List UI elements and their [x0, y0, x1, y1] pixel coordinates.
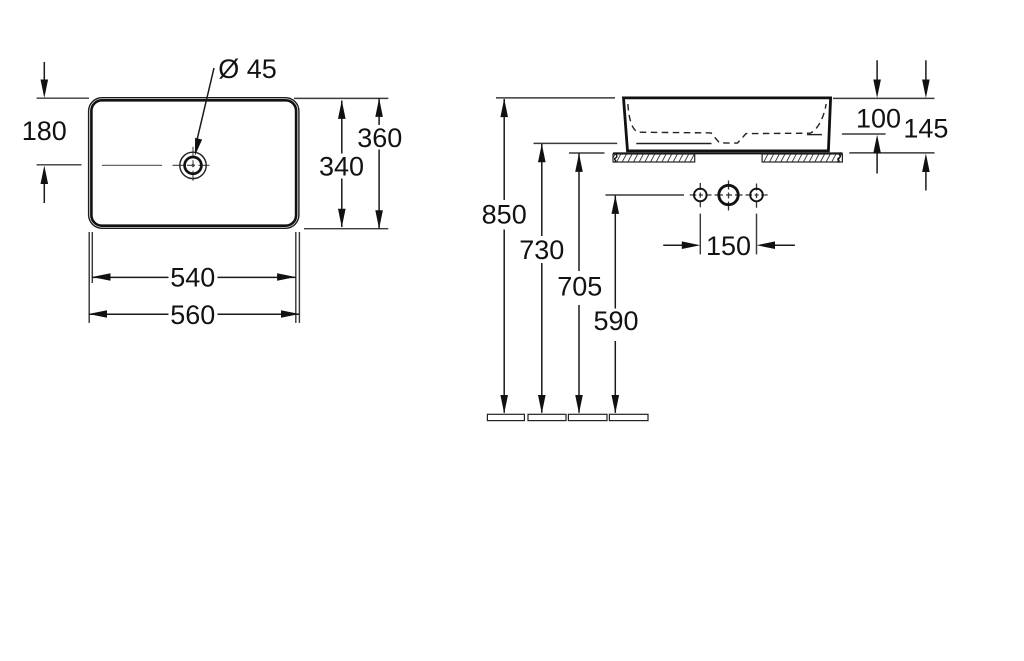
drain hole inner circle [185, 157, 202, 174]
dim 705 line [578, 153, 580, 271]
dim 100 bottom arrow [876, 146, 878, 174]
ext line basin top right [833, 97, 935, 99]
ext lines below basin right [295, 232, 297, 323]
dim 145 top arrow [925, 60, 927, 86]
floor tile 2 [528, 414, 566, 420]
svg-text:180: 180 [22, 116, 67, 146]
tap hole left crosshair [690, 194, 712, 196]
svg-text:100: 100 [856, 103, 901, 133]
svg-text:590: 590 [593, 306, 638, 336]
dim 150 left arrow [663, 244, 688, 246]
countertop top line [613, 152, 843, 154]
svg-text:730: 730 [519, 235, 564, 265]
svg-text:145: 145 [903, 114, 948, 144]
countertop break mark right [838, 153, 841, 163]
countertop break mark left [615, 153, 618, 163]
centerline horizontal [102, 164, 162, 166]
dim 850 line [503, 99, 505, 200]
line from 590 to tap holes [606, 194, 685, 196]
leader line O45 [196, 68, 214, 145]
svg-text:850: 850 [482, 199, 527, 229]
svg-text:705: 705 [557, 271, 602, 301]
crosshair horizontal [173, 164, 213, 166]
floor tile 3 [568, 414, 607, 420]
svg-text:540: 540 [170, 262, 215, 292]
svg-text:340: 340 [319, 152, 364, 182]
dim 590 line [614, 195, 616, 308]
ext line top edge left [37, 97, 89, 99]
dim 180 top arrow [43, 62, 45, 86]
dim 360 line [378, 98, 380, 125]
dim 560 line [89, 313, 169, 315]
dim 730 line [541, 144, 543, 236]
dim 180 bottom arrow [43, 178, 45, 203]
dim 150 ext lines [699, 214, 701, 255]
tap hole left circle [694, 189, 707, 202]
svg-text:560: 560 [170, 300, 215, 330]
inner bottom solid line left [636, 143, 711, 145]
ext line basin bottom right [849, 152, 934, 154]
svg-text:150: 150 [706, 231, 751, 261]
leader arrowhead [195, 138, 202, 156]
dim 540 line [92, 276, 169, 278]
tap hole center circle [719, 185, 738, 204]
ext line bottom edge right [304, 228, 388, 230]
svg-text:Ø 45: Ø 45 [218, 54, 277, 84]
basin inner profile dashed [628, 104, 826, 143]
dim 145 bottom arrow [925, 165, 927, 191]
ext line inner bottom left [534, 142, 618, 144]
floor tile 4 [609, 414, 648, 420]
drain center dot [192, 164, 195, 167]
basin outer outline [89, 98, 299, 229]
dim 100 top arrow [876, 60, 878, 86]
crosshair vertical [192, 147, 194, 184]
inner short solid line right [807, 134, 822, 136]
basin inner rim [91, 100, 296, 225]
tap hole center crosshair [715, 194, 743, 196]
tap hole right circle [750, 189, 763, 202]
drain hole outer circle [180, 152, 206, 178]
floor tile 1 [487, 414, 524, 420]
ext line top edge right [294, 97, 388, 99]
dim 340 line [341, 101, 343, 154]
svg-text:360: 360 [357, 123, 402, 153]
tap hole right crosshair [746, 194, 769, 196]
countertop hatch left [613, 154, 695, 162]
ext line basin top left [496, 97, 615, 99]
ext lines below basin left [88, 232, 90, 323]
ext line inner depth right [842, 133, 886, 135]
basin side outline [624, 98, 831, 151]
dim 150 right arrow [769, 244, 795, 246]
countertop hatch right [762, 154, 842, 162]
ext line center left [37, 164, 82, 166]
ext line countertop left [569, 152, 605, 154]
